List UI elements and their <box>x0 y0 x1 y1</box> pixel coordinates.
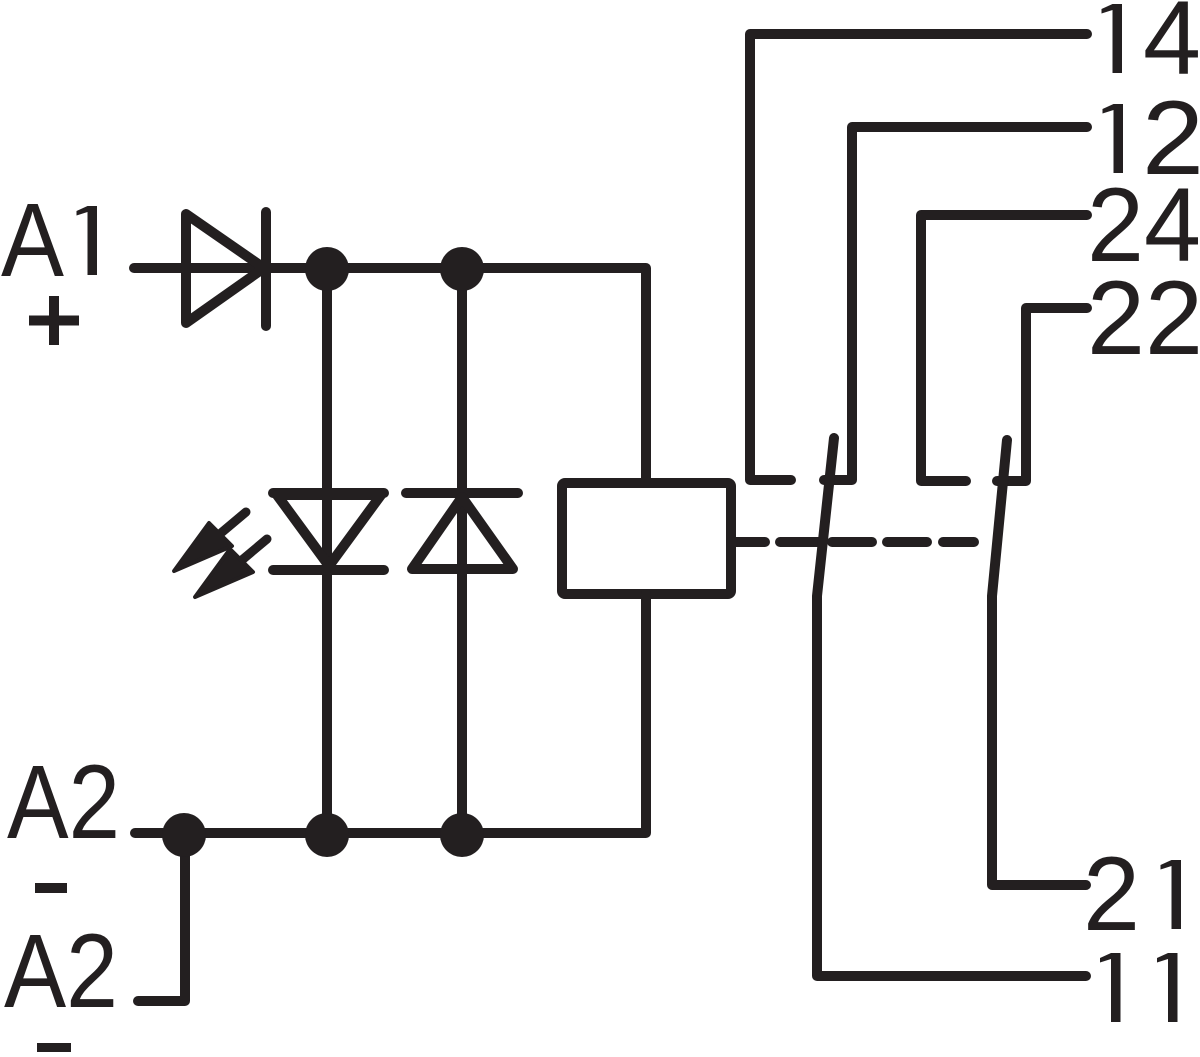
node junction A1-suppressor <box>440 247 484 291</box>
node junction A2-LED <box>305 813 349 857</box>
coil actuator stub <box>731 537 765 547</box>
label terminal 14 <box>1113 4 1123 73</box>
plus sign <box>29 296 79 345</box>
node junction A2 terminal <box>162 813 206 857</box>
wire A1 feed to coil <box>134 268 646 483</box>
wire suppressor diode branch vertical <box>457 268 467 833</box>
wire A2 second terminal stub <box>138 833 185 1001</box>
wire LED branch vertical <box>322 268 332 833</box>
wire contact 22 NC terminal <box>997 308 1087 481</box>
LED light arrow 1 <box>174 512 246 571</box>
svg-text:A: A <box>1 182 64 299</box>
svg-text:A2: A2 <box>7 744 120 861</box>
minus sign below A2 <box>35 883 67 893</box>
node junction A1-LED <box>305 247 349 291</box>
label terminal 12 <box>1114 104 1124 173</box>
svg-text:A2: A2 <box>4 913 118 1030</box>
LED light arrow 2 <box>195 539 267 597</box>
diode D1 series polarity diode <box>186 212 266 326</box>
contact arm pole 21 <box>992 440 1086 885</box>
minus sign bottom edge <box>37 1043 71 1053</box>
wire contact 12 NC terminal <box>824 127 1087 480</box>
diode D3 freewheeling suppressor <box>406 493 518 569</box>
wire coil bottom to A2 rail <box>135 594 646 833</box>
contact arm pole 11 <box>817 438 1086 976</box>
wire contact 14 NO terminal <box>750 34 1087 480</box>
label terminal 11 <box>1111 953 1121 1022</box>
svg-text:2: 2 <box>1083 836 1140 953</box>
LED D2 indicator <box>273 493 384 570</box>
wire contact 24 NO terminal <box>921 215 1087 481</box>
svg-text:22: 22 <box>1087 260 1200 377</box>
relay coil K1 <box>562 483 731 594</box>
dashed actuation link <box>780 537 974 547</box>
node junction A2-suppressor <box>440 813 484 857</box>
